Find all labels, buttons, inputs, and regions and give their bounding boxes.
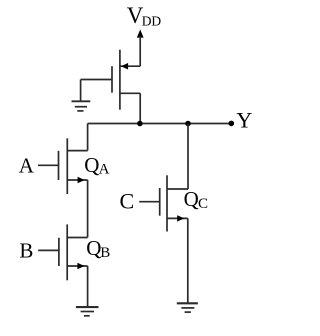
transistor M1 gate lead bbox=[81, 79, 112, 81]
transistor QB channel bbox=[66, 224, 68, 280]
transistor QC gate bar bbox=[159, 188, 161, 216]
transistor M1 source arrow (points into channel) bbox=[121, 63, 128, 70]
ground G1 (gate of M1) bbox=[72, 101, 91, 111]
transistor M1 gate bar bbox=[111, 66, 113, 93]
wire: M1 drain down to output rail bbox=[139, 93, 141, 123]
transistor QA gate lead bbox=[38, 164, 59, 166]
transistor QC source lead bbox=[167, 217, 188, 219]
junction dot (rail / QC branch) bbox=[185, 121, 191, 127]
transistor QA source lead bbox=[67, 179, 87, 181]
svg-text:DD: DD bbox=[142, 13, 162, 28]
transistor QB source arrow bbox=[77, 263, 84, 269]
transistor QA designator label bbox=[84, 153, 109, 178]
svg-text:Q: Q bbox=[84, 153, 99, 177]
wire: output rail (node Y) bbox=[88, 123, 232, 125]
output terminal dot bbox=[229, 121, 235, 127]
transistor QA gate bar bbox=[58, 151, 60, 180]
transistor QB gate bar bbox=[58, 238, 60, 266]
svg-text:Y: Y bbox=[236, 108, 252, 133]
svg-text:B: B bbox=[19, 239, 33, 263]
transistor QC designator label bbox=[184, 187, 208, 212]
transistor M1 drain lead bbox=[120, 92, 140, 94]
transistor QB designator label bbox=[86, 236, 110, 261]
transistor QC drain lead bbox=[167, 188, 188, 190]
transistor QC source arrow bbox=[177, 215, 184, 221]
junction dot (M1 drain / rail) bbox=[137, 121, 143, 127]
wire: VDD stem down to M1 source lead bbox=[139, 37, 141, 67]
svg-text:Q: Q bbox=[184, 187, 199, 211]
svg-text:Q: Q bbox=[86, 236, 101, 260]
transistor QB drain lead bbox=[67, 237, 87, 239]
wire: M1 gate to ground bbox=[80, 80, 82, 102]
VDD supply arrow bbox=[137, 30, 144, 38]
wire: QA source down to QB drain bbox=[87, 180, 89, 238]
svg-text:C: C bbox=[120, 189, 135, 214]
transistor M1 (load) source lead bbox=[120, 65, 140, 67]
wire: rail down to QC drain bbox=[187, 124, 189, 190]
transistor QC gate lead bbox=[139, 201, 160, 203]
transistor M1 channel bbox=[119, 50, 121, 110]
transistor QB source lead bbox=[67, 265, 87, 267]
wire: rail down to QA drain bbox=[87, 124, 89, 151]
svg-text:A: A bbox=[99, 162, 110, 178]
wire: QC source down to ground bbox=[187, 218, 189, 303]
ground G2 (QB source) bbox=[76, 307, 99, 316]
wire: QB source down to ground bbox=[87, 266, 89, 307]
transistor QA source arrow bbox=[78, 177, 85, 183]
ground G3 (QC source) bbox=[177, 303, 198, 312]
transistor QA channel bbox=[66, 138, 68, 194]
transistor QC channel bbox=[166, 175, 168, 231]
svg-text:B: B bbox=[100, 245, 110, 261]
node VDD label bbox=[127, 3, 162, 28]
svg-text:A: A bbox=[19, 153, 35, 177]
transistor QB gate lead bbox=[38, 249, 59, 251]
transistor QA drain lead bbox=[67, 150, 87, 152]
svg-text:C: C bbox=[198, 196, 208, 212]
